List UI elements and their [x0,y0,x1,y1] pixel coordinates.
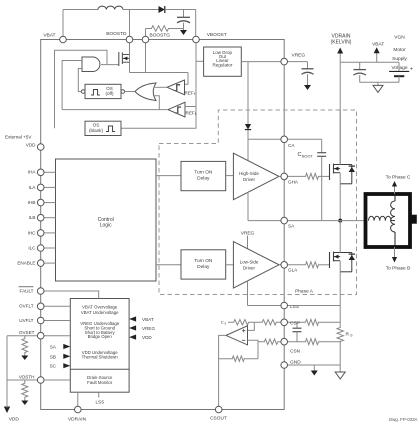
pin CSN right [281,338,288,345]
wire UVFLT internal [44,320,71,322]
wire delay1 to driver [226,175,234,177]
wire supply branch [340,61,399,63]
label VREG pin [292,52,306,58]
pin VBOOST [193,32,227,43]
svg-text:Turn ON: Turn ON [194,258,213,264]
label SA pin [288,224,295,229]
wire vdd ref rail [6,336,8,406]
arrow VBAT up [374,47,380,62]
wire CA to driver [247,139,249,161]
wire SA internal [248,220,284,222]
svg-text:SB: SB [50,354,56,359]
wire diode to corner [165,9,196,11]
svg-text:Regulator: Regulator [212,63,232,68]
wire boost rail left [63,9,98,11]
pin VBAT [43,33,66,43]
wire Q3 drain to SA [339,221,341,253]
svg-text:VREG: VREG [142,326,155,331]
label LSS pin [290,304,299,310]
arrow SB in [50,354,70,360]
svg-text:SC: SC [50,364,57,369]
regulator U4 low drop out [204,47,242,76]
svg-text:BOOSTD: BOOSTD [106,31,127,37]
bubble OS off right [121,90,125,94]
wire gnd stub supply [377,82,379,85]
schmitt comparator REFH [167,80,185,95]
diode D2 bootstrap [245,124,251,130]
capacitor C3 CBOOT [317,153,326,157]
ground signal [311,371,318,376]
wire csn to opamp [248,340,259,341]
svg-text:LSS: LSS [290,304,299,310]
pin CSP right [281,319,288,326]
wire delay2 to driver [226,264,234,266]
pin ILC [28,245,55,252]
svg-text:Turn ON: Turn ON [194,169,213,175]
svg-text:VDD: VDD [9,417,20,423]
transistor Q1 gate bar [118,52,120,66]
wire ctl to delay2 [156,264,181,266]
label VREG supply [241,230,255,236]
label Rs [346,331,354,337]
wire VDRAIN rail [339,62,341,164]
motor M1 [366,194,411,247]
wire ctl to delay1 [156,175,181,177]
ground vreg cap [304,85,311,90]
svg-text:Delay: Delay [197,176,210,182]
resistor R2 gate high [303,173,321,179]
wire FAULT internal [44,291,99,299]
label CSP pin [290,321,300,327]
pin LSS right [281,302,288,309]
svg-text:UVFLT: UVFLT [19,318,33,323]
ground Rs open [335,372,345,379]
wire GND external [284,364,340,366]
battery B1 [389,62,413,82]
wire BOOSTG internal [145,40,147,73]
label diagram number [389,417,418,422]
resistor R9 csn int [258,339,284,344]
pin GHA right [281,173,288,180]
svg-text:GHA: GHA [288,179,299,184]
wire BOOSTG up [146,29,150,40]
svg-text:Dwg. FP-033A: Dwg. FP-033A [389,417,418,422]
wire REFH out to OR [154,86,168,88]
wire Q2 source to SA [339,173,341,221]
resistor R11 ovset [22,336,28,356]
resistor R7 csp int [254,320,284,325]
svg-text:Fault Monitor: Fault Monitor [87,380,113,385]
svg-text:VDD: VDD [26,142,36,147]
label GLA pin [288,268,298,273]
wire driver source sense [247,281,249,306]
pin GLA right [281,262,288,269]
svg-text:VBOOST: VBOOST [207,32,227,38]
svg-text:LSS: LSS [95,400,104,405]
wire OVFLT internal [44,305,71,307]
wire OS off to AND [78,69,82,92]
wire Q2 drain [339,110,341,165]
svg-text:VREG: VREG [292,52,306,58]
wire winding to top [394,194,396,201]
svg-text:To Phase C: To Phase C [386,174,411,180]
boost cap branch [183,10,185,18]
svg-text:(KELVIN): (KELVIN) [331,39,352,45]
label To Phase C [386,174,411,180]
wire OR lower input [153,96,159,110]
fault monitor divider [70,368,129,370]
pin OVFLT [19,303,44,310]
delay block 1 [181,161,226,190]
junction SA node [338,219,342,223]
resistor R12 vdsth [22,380,28,401]
wire cap to gnd [183,23,185,30]
svg-text:ILB: ILB [29,215,36,220]
arrow VDD down [4,406,10,413]
svg-text:CSN: CSN [290,348,301,354]
wire REFL out feedback [62,109,168,111]
svg-text:(off): (off) [105,91,114,96]
wire VDSTH internal [44,379,71,381]
wire gate loop [55,50,108,128]
resistor R5 sense Rs [337,325,343,344]
motor shaft [410,215,417,224]
pin UVFLT [19,317,44,324]
label VDD bottom [9,417,20,423]
svg-text:BOOT: BOOT [302,155,313,159]
capacitor C5 csp-csn [293,322,302,341]
capacitor C2 vreg [302,69,314,75]
svg-text:OVSET: OVSET [19,330,35,335]
wire OVSET internal [44,335,71,337]
svg-text:CA: CA [288,143,295,148]
ground R11 [21,356,28,361]
schmitt comparator REFL [168,102,185,117]
pin IHB [28,199,56,206]
label GHA pin [288,179,299,184]
svg-text:Thermal Shutdown: Thermal Shutdown [82,355,119,360]
diode D1 boost [159,6,165,13]
capacitor C1 boost [177,17,190,23]
arrow to phase B [392,247,397,263]
svg-text:Motor: Motor [393,47,406,53]
label LSS internal [95,400,104,405]
wire r4 to rs [321,321,340,323]
wire fault to VDRAIN [77,392,79,409]
svg-text:REFL: REFL [186,110,197,116]
label CA pin [288,143,295,148]
label VGN motor supply [391,35,407,72]
svg-text:REFH: REFH [185,91,197,97]
label GND pin [290,359,301,365]
svg-text:High-Side: High-Side [239,171,259,176]
pin ENABLE [17,260,55,267]
wire CBOOT down [321,139,323,152]
pin VDD [26,142,44,150]
svg-text:BOOSTG: BOOSTG [150,33,171,39]
wire CA line [248,138,322,140]
svg-text:C: C [298,152,302,158]
wire GHA external [284,175,303,177]
svg-text:VDSTH: VDSTH [19,374,35,379]
svg-text:Driver: Driver [243,265,256,270]
wire driver SHA sense [247,192,249,221]
wire Q3 source to LSS [339,261,341,306]
wire driver to GLA [279,264,284,266]
label To Phase B [386,265,411,271]
label VBAT arrow [372,42,384,48]
wire OVSET ext [7,335,38,337]
pin BOOSTD [106,31,133,43]
svg-text:SA: SA [50,345,57,350]
wire LDO out to VREG pin [241,61,284,63]
wire Q1 source [130,72,189,74]
arrow SA in [50,344,70,350]
one-shot OS blank [85,121,121,135]
wire diode to CA line [247,130,249,140]
svg-text:+: + [410,67,413,73]
svg-text:Supply: Supply [392,56,407,62]
pin SA right [281,217,288,224]
pin VREG right [281,58,288,65]
ground R12 [21,401,28,406]
wire VBAT to boost rail [62,10,64,40]
wire VDSTH ext [7,379,38,381]
motor winding vertical [391,201,395,232]
transistor Q1 channel [121,53,123,65]
resistor R1 BOOSTG [149,26,184,32]
wire CBOOT to SA [321,156,323,220]
label External 5V [5,134,32,139]
phase A dashed boundary [159,110,357,295]
transistor Q2 high-side with body diode [330,164,356,184]
svg-text:Driver: Driver [243,177,256,182]
wire VREG branch down [247,62,249,124]
transistor Q1 arrow [123,57,127,61]
wire VBOOST internal sense [121,40,196,129]
wire to Q3 gate [321,264,330,266]
arrow VDD in [129,335,152,341]
svg-text:OVFLT: OVFLT [19,304,34,309]
svg-text:VDRAIN: VDRAIN [68,416,87,422]
wire to REFH input [185,73,189,85]
pin IHA [28,169,56,176]
svg-text:To Phase B: To Phase B [386,265,411,271]
pin VDRAIN [68,406,87,422]
pin VDSTH [19,374,44,383]
svg-text:ILA: ILA [29,185,37,190]
arrow VREG in [129,325,155,331]
motor winding horizontal [369,216,392,220]
wire CSP to Rs [284,321,303,323]
fault monitor U9 [70,299,129,393]
svg-text:CSOUT: CSOUT [210,415,227,421]
pin ILA [29,184,56,191]
wire LSS external [284,305,340,307]
label CSN pin [290,348,301,354]
wire GLA external [284,264,303,266]
wire rs bottom [339,344,341,372]
ground supply open [373,85,383,92]
pin GND right [281,362,288,369]
pin BOOSTG [142,33,170,43]
wire Q1 drain to BOOSTD [129,40,131,73]
svg-text:Bridge Open: Bridge Open [88,334,113,339]
or-gate U3 [135,83,156,101]
wire CSN to Rs [284,341,303,343]
high-side driver U6 [233,153,279,200]
wire driver to GHA [279,175,284,177]
pin IHC [28,230,56,237]
transistor Q1 stubs [122,55,129,63]
svg-text:ILC: ILC [28,245,36,250]
label CBOOT [298,152,314,159]
wire SA to motor [284,220,365,222]
label REFH [185,91,197,97]
svg-text:VDD: VDD [142,335,152,340]
ground boost cap [180,30,187,35]
wire opamp out [219,335,226,409]
wire feedback to AND [62,61,82,110]
wire vreg cap gnd [307,74,309,85]
and-gate U2 [82,57,100,72]
control logic U5 [56,159,157,281]
svg-text:(blank): (blank) [89,128,104,133]
wire VBOOST to regulator [196,60,204,62]
wire r6 to rs [321,341,340,343]
wire feedback down [257,342,259,359]
svg-text:VBAT Undervoltage: VBAT Undervoltage [81,310,119,315]
op-amp U8 sense [226,326,248,345]
wire supply bottom [360,81,399,83]
inductor L1 [98,6,123,9]
svg-text:OS: OS [93,123,100,128]
wire to Q2 gate [321,175,330,177]
wire winding to bottom [394,232,396,247]
one-shot OS off [85,84,121,98]
wire csp to opamp [248,322,255,330]
arrow to phase C [392,181,397,194]
svg-text:Delay: Delay [197,264,210,270]
arrow VDRAIN up [337,48,343,63]
pin CA right [281,136,288,143]
svg-text:SA: SA [288,224,295,229]
svg-text:VGN: VGN [394,35,405,41]
wire cap4 branch [359,62,361,69]
wire fault LSS [98,392,100,397]
svg-text:External +5V: External +5V [5,134,32,139]
wire VREG to low driver [247,236,249,250]
IC package outline [41,40,285,410]
label Phase A [295,289,314,295]
svg-text:Low-Side: Low-Side [240,259,259,264]
capacitor C4 supply [353,70,366,76]
svg-text:Phase A: Phase A [295,289,314,295]
svg-text:IHA: IHA [28,170,37,175]
svg-text:R: R [346,331,350,337]
svg-text:Voltage: Voltage [391,65,407,71]
low-side driver U7 [233,242,279,289]
svg-text:VREG: VREG [241,230,255,236]
arrow SC in [50,363,71,369]
svg-text:IHB: IHB [28,200,36,205]
label REFL [186,110,197,116]
wire OR out to OS off [125,91,135,93]
svg-text:IHC: IHC [28,230,37,235]
svg-text:VBAT: VBAT [142,317,154,322]
svg-text:CSP: CSP [290,321,300,327]
wire inductor to diode [123,9,159,11]
wire cap4 down [359,75,361,82]
svg-text:FAULT: FAULT [20,289,34,294]
wire VREG external [284,62,307,69]
resistor R4 csp ext [303,319,321,325]
bubble OS off left [81,90,85,94]
wire down to VBOOST [195,10,197,40]
wire rs top [339,306,341,326]
resistor R8 cs filter [228,320,254,325]
transistor Q3 low-side with body diode [330,252,356,272]
svg-text:VBAT: VBAT [43,33,55,39]
label drain-source monitor [87,375,113,385]
resistor R10 feedback [219,356,258,361]
node BOOSTD branch [129,10,131,40]
svg-text:GND: GND [290,359,301,365]
pin FAULT [19,287,45,295]
svg-text:ENABLE: ENABLE [17,261,35,266]
svg-text:GLA: GLA [288,268,298,273]
wire LSS internal [248,305,285,307]
resistor R3 gate low [303,262,321,268]
delay block 2 [181,250,226,279]
label cs [221,319,226,325]
wire REFL input [185,106,196,108]
pin CSOUT [210,406,227,421]
wire AND out to gate [101,64,119,66]
svg-text:S: S [224,321,226,325]
label VDRAIN KELVIN [331,33,352,45]
resistor R6 csn ext [303,339,321,345]
arrow VBAT in [129,316,154,322]
svg-text:VBAT: VBAT [372,42,384,48]
pin OVSET [19,330,44,339]
pin ILB [29,214,56,221]
svg-text:Logic: Logic [100,223,112,229]
wire gnd stub [313,365,315,371]
